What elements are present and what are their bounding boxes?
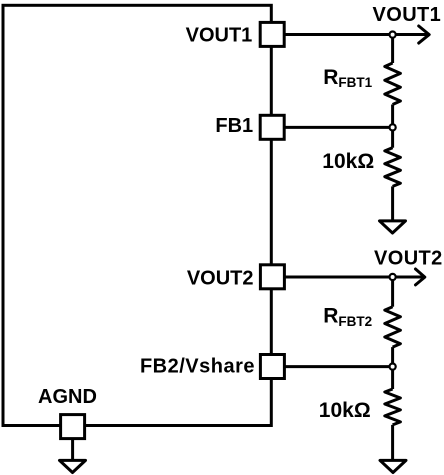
resistor 10k R2 — [385, 148, 401, 187]
pin box VOUT2 — [260, 265, 284, 289]
svg-text:RFBT2: RFBT2 — [323, 304, 372, 328]
pin box FB2/Vshare — [260, 355, 284, 379]
svg-text:VOUT2: VOUT2 — [187, 267, 254, 289]
IC body U1 outline — [3, 5, 271, 425]
wire node3 to RFBT2 — [391, 277, 394, 307]
wire node1 to RFBT1 — [391, 35, 394, 63]
wire node4 to 10k resistor 2 — [391, 367, 394, 389]
arrow VOUT1 output — [419, 26, 430, 43]
svg-text:10kΩ: 10kΩ — [322, 150, 374, 173]
wire FB1 pin to node — [284, 126, 393, 129]
svg-text:VOUT2: VOUT2 — [374, 248, 443, 270]
wire RFBT1 to node2 — [391, 105, 394, 128]
wire node2 to 10k resistor 1 — [391, 127, 394, 147]
wire 10k resistor 2 to ground — [391, 425, 394, 459]
arrow VOUT2 output — [416, 269, 425, 285]
svg-text:FB1: FB1 — [215, 115, 253, 137]
ground 1 — [380, 221, 406, 233]
pin box VOUT1 — [260, 22, 284, 46]
wire AGND box to ground — [71, 439, 74, 459]
resistor 10k R4 — [385, 389, 401, 425]
svg-text:VOUT1: VOUT1 — [186, 24, 253, 46]
wire VOUT2 pin to arrow — [284, 276, 424, 279]
pin box FB1 — [260, 115, 284, 139]
pin box AGND — [61, 415, 85, 439]
node C (VOUT2) — [390, 274, 396, 280]
wire RFBT2 to node4 — [391, 347, 394, 367]
wire VOUT1 pin to arrow — [284, 33, 428, 36]
node A (VOUT1) — [390, 31, 396, 37]
svg-text:10kΩ: 10kΩ — [319, 399, 371, 422]
resistor RFBT2 — [385, 307, 401, 347]
svg-text:VOUT1: VOUT1 — [373, 4, 442, 26]
ground 2 — [380, 460, 406, 472]
node D (FB2) — [390, 364, 396, 370]
ground AGND — [60, 460, 86, 472]
svg-text:AGND: AGND — [38, 386, 97, 408]
wire 10k resistor 1 to ground — [391, 186, 394, 219]
resistor RFBT1 — [385, 63, 401, 105]
wire FB2 pin to node — [284, 365, 393, 368]
svg-text:RFBT1: RFBT1 — [323, 66, 372, 90]
node B (FB1) — [390, 124, 396, 130]
svg-text:FB2/Vshare: FB2/Vshare — [140, 356, 255, 378]
